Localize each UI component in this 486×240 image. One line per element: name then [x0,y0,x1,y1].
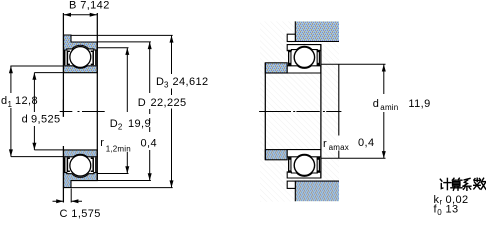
svg-text:1,2min: 1,2min [106,145,131,154]
svg-text:3: 3 [164,81,169,90]
right face line [96,13,98,181]
svg-text:0,4: 0,4 [141,138,158,150]
seal right [91,50,96,65]
dimension D2 line [126,48,128,174]
inner ring (mounted) [287,66,321,73]
svg-text:B 7,142: B 7,142 [69,0,110,12]
arrowhead C right [71,199,78,203]
dimension D line [149,42,151,181]
arrowhead d1 down [9,149,13,156]
dimension C line [53,200,83,202]
dimension D line dashed part [149,109,151,133]
mounted view, upper half [265,21,339,73]
arrowhead D down [148,173,152,180]
svg-text:11,9: 11,9 [408,98,430,110]
svg-text:24,612: 24,612 [173,76,209,88]
svg-text:D: D [110,118,118,130]
bearing section view, lower half (mirror) [64,150,98,188]
extension line d bottom [34,149,63,151]
arrowhead C left [56,199,63,203]
housing (sectioned) [295,21,339,41]
shaft right end line [338,64,340,158]
arrowhead D3 up [170,35,174,42]
centerline (left view) [60,111,105,113]
shaft and housing hatched block [260,21,339,201]
inner ring (sectioned) [64,66,98,73]
ball (mounted) [294,47,314,67]
arrowhead d1 up [9,66,13,73]
bearing right face line (mounted) [320,45,322,178]
arrowhead D2 down [125,166,129,173]
shaft abutment line top [321,63,386,65]
mounted view, lower half (mirror) [265,150,339,202]
svg-text:amin: amin [380,103,398,112]
arrowhead d up [32,73,36,80]
extension line D3 bottom [71,187,173,189]
svg-text:r: r [100,137,104,149]
svg-text:2: 2 [118,123,123,132]
arrowhead da up [382,64,386,71]
svg-text:d: d [373,98,380,110]
seals (mounted) [288,50,320,66]
svg-text:r: r [440,198,443,207]
dimension d1 line [10,66,12,157]
svg-text:22,225: 22,225 [151,97,187,109]
svg-text:amax: amax [329,143,349,152]
svg-text:13: 13 [446,204,459,216]
arrowhead D up [148,42,152,49]
dimension da line [383,64,385,158]
svg-text:d: d [22,114,29,126]
bearing section view, upper half [64,35,98,73]
arrowhead d down [32,143,36,150]
ball [70,47,91,68]
centerline tick [62,100,64,117]
arrowhead B left [64,13,71,17]
extension line D3 top [71,34,173,36]
shaft abutment line bottom [321,157,386,159]
extension line D bottom [97,180,151,182]
extension line d1 bottom [11,156,64,158]
extension line D top [97,41,151,43]
svg-text:1: 1 [8,100,13,109]
left face line [62,13,64,203]
shaft shoulder (sectioned) [265,63,287,73]
arrowhead D3 down [170,180,174,187]
extension line C [70,189,72,203]
svg-text:9,525: 9,525 [31,114,61,126]
svg-text:C 1,575: C 1,575 [60,208,101,220]
svg-text:r: r [323,138,327,150]
heading 计算系数 (drawn strokes) [440,178,486,190]
outer ring (mounted) [287,45,321,51]
svg-text:19,9: 19,9 [128,118,151,130]
dimension D3 line [171,35,173,187]
arrowhead da down [382,151,386,158]
arrowhead B right [90,13,97,17]
dimension B line [63,14,97,16]
centerline (right view) [259,111,341,113]
dimension d line [33,73,35,150]
svg-text:D: D [138,97,146,109]
outer ring with flange (sectioned) [64,35,98,50]
shaft left end line [264,63,266,160]
arrowhead D2 up [125,48,129,55]
extension line d1 top [10,65,63,67]
svg-text:0: 0 [437,208,442,217]
extension line D2 top [97,47,128,49]
seal left [65,50,70,65]
bearing flange (mounted) [287,34,295,41]
extension line D2 bottom [97,173,128,175]
extension line d top [34,72,63,74]
svg-text:0,4: 0,4 [358,137,375,149]
